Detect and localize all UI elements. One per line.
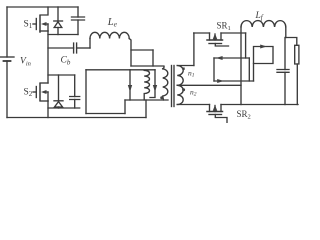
wire load top	[286, 38, 297, 46]
arrow ip current down	[153, 85, 157, 92]
wire primary loop bottom	[86, 113, 125, 115]
wire y58 right descent	[248, 58, 250, 81]
wire primary loop left	[85, 70, 87, 114]
dot primary polarity	[160, 96, 163, 99]
wire S2 drain stub	[40, 82, 48, 84]
svg-text:n1: n1	[188, 69, 195, 79]
svg-text:SR2: SR2	[237, 109, 251, 121]
arrow Lm current down	[128, 85, 132, 92]
wire S2 mid stub	[44, 91, 48, 93]
wire staircase top	[131, 49, 153, 51]
wire S2 source stub	[40, 100, 48, 102]
wire Lm branch	[129, 70, 131, 100]
wire S1 source stub	[40, 30, 48, 32]
wire SR1 mid stub	[214, 34, 216, 40]
transistor SR2 gate bar	[209, 114, 222, 116]
wire S2 source to rail	[47, 101, 49, 118]
capacitor C2 plates	[70, 97, 80, 100]
transistor SR2 channel bar	[207, 111, 223, 113]
wire outer bottom rail	[7, 117, 146, 119]
wire primary return riser	[145, 100, 147, 118]
winding secondary n2	[177, 85, 183, 104]
wire C2 bottom lead	[74, 100, 76, 109]
wire Le left riser	[89, 39, 91, 49]
winding primary inner	[144, 70, 149, 100]
svg-text:SR1: SR1	[217, 21, 231, 33]
wire y81 line	[214, 80, 254, 82]
wire SR1 left stub	[209, 33, 211, 40]
wire staircase right vertical	[152, 50, 154, 66]
wire Cb left	[48, 47, 74, 49]
wire SR2 right stub	[220, 105, 222, 112]
wire D1 bottom lead	[57, 28, 59, 35]
wire node line y58	[214, 57, 249, 59]
transistor S2 body arrow	[41, 90, 47, 94]
svg-text:S2: S2	[24, 88, 33, 99]
wire SR1 top right	[221, 32, 246, 34]
dot n1 polarity	[182, 68, 184, 70]
winding secondary n1	[177, 66, 183, 86]
capacitor Co plates	[277, 70, 289, 73]
transistor S1 gate bar	[35, 19, 37, 30]
wire left rail top	[6, 7, 8, 57]
wire ip branch	[150, 70, 155, 98]
transistor S1 body arrow	[41, 22, 47, 26]
wire S2 source vertical	[47, 92, 49, 101]
wire box left lower riser	[253, 64, 255, 82]
dot n2 polarity	[182, 88, 185, 91]
wire SR1 gate lead	[215, 44, 228, 47]
wire Lf right lead	[285, 27, 287, 38]
wire D1 top lead	[57, 7, 59, 21]
transistor SR1 body arrow	[213, 33, 218, 39]
wire Co top lead	[284, 38, 286, 70]
wire center tap	[177, 84, 241, 86]
loop box with arrow	[254, 47, 274, 64]
wire SR1 drain descent	[245, 33, 247, 58]
wire output bottom rail	[221, 104, 298, 106]
wire Co bottom lead	[284, 72, 286, 104]
arrow on y58 line	[216, 56, 223, 60]
diode D2 bar	[54, 100, 63, 102]
wire S1 mid stub	[44, 23, 48, 25]
wire SR1 top left	[194, 32, 210, 34]
inductor Le coil	[90, 32, 129, 38]
winding primary main	[163, 69, 168, 100]
wire C2 top lead	[74, 75, 76, 97]
transistor SR1 gate bar	[209, 43, 222, 45]
transistor SR2 body arrow	[213, 105, 218, 111]
wire D2 top lead	[58, 75, 60, 101]
wire S2 cell top rail	[48, 74, 75, 76]
battery Vin plate short	[4, 60, 11, 62]
wire primary bottom node	[125, 99, 168, 101]
wire SR1 right stub	[220, 33, 222, 40]
svg-text:Le: Le	[107, 17, 118, 29]
transistor SR1 channel bar	[207, 39, 223, 41]
svg-text:n2: n2	[190, 88, 197, 98]
wire S1 gate lead	[33, 23, 36, 25]
wire y58 to y81 left	[213, 58, 215, 81]
wire D2 bottom lead	[58, 107, 60, 108]
transistor S1 channel bar	[39, 16, 41, 32]
wire SR2 gate lead	[215, 115, 227, 123]
svg-text:Cb: Cb	[61, 56, 71, 67]
wire top rail	[7, 6, 78, 8]
transistor S2 gate bar	[35, 87, 37, 98]
wire S2 gate lead	[33, 91, 36, 93]
resistor load box	[295, 45, 299, 64]
wire S1 drain	[40, 7, 48, 15]
wire secondary bottom left	[177, 104, 209, 106]
arrow on y81 line	[217, 79, 224, 83]
wire primary loop top	[86, 69, 155, 71]
wire C1 bottom lead	[77, 20, 79, 35]
core line right	[173, 66, 175, 107]
battery Vin plate long	[1, 56, 15, 58]
capacitor C1 plates	[72, 17, 85, 20]
wire Lf left vertical	[240, 27, 242, 105]
diode D1 triangle	[54, 22, 62, 28]
diode D1 bar	[54, 20, 63, 22]
wire S1 source vertical	[47, 24, 49, 31]
wire left rail bottom	[6, 61, 8, 118]
capacitor Cb plates	[74, 43, 77, 53]
wire primary top entry	[131, 66, 164, 69]
svg-text:S1: S1	[24, 20, 33, 31]
wire load bottom lead	[296, 64, 298, 105]
wire S2 cell bottom rail	[48, 107, 80, 109]
transistor S2 channel bar	[39, 84, 41, 100]
wire secondary top	[177, 65, 194, 67]
core line left	[171, 66, 173, 107]
diode D2 triangle	[55, 102, 63, 107]
inductor Lf coil	[241, 21, 286, 27]
wire Cb right	[77, 47, 90, 49]
wire primary loop right riser	[124, 100, 126, 114]
arrow on box top	[260, 45, 267, 49]
wire SR1 source riser	[193, 33, 195, 66]
wire Le right lead	[129, 39, 131, 67]
wire C1 top lead	[77, 7, 79, 17]
wire SR2 mid stub	[214, 106, 216, 112]
svg-text:Lf: Lf	[255, 11, 264, 22]
wire SR2 left stub	[209, 105, 211, 112]
svg-text:Vin: Vin	[20, 57, 31, 68]
wire midpoint vertical	[47, 31, 49, 83]
wire S1 cell bottom rail	[48, 34, 78, 36]
